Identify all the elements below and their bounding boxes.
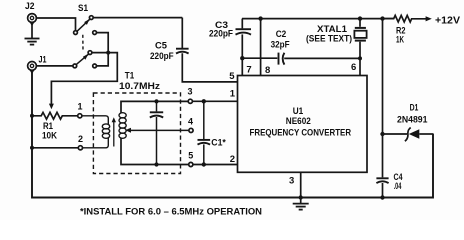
wire S1b pivot to R1 wiper bbox=[51, 53, 117, 106]
junction C1 top bbox=[202, 99, 206, 103]
terminal circle 4 bbox=[189, 128, 193, 132]
right branch vertical (rail to C4) bbox=[382, 19, 384, 178]
junction R1 left on rail bbox=[30, 114, 34, 118]
svg-text:C2: C2 bbox=[276, 29, 287, 39]
svg-text:32pF: 32pF bbox=[271, 39, 290, 49]
connector J1 bbox=[28, 62, 37, 75]
svg-text:1: 1 bbox=[77, 102, 82, 112]
switch S1 gang dashed link bbox=[82, 35, 84, 51]
T1 secondary top lead bbox=[121, 101, 188, 113]
svg-text:J2: J2 bbox=[25, 1, 35, 11]
svg-text:5: 5 bbox=[229, 71, 235, 82]
svg-text:1: 1 bbox=[230, 89, 236, 100]
T1 tuning slug arrow bbox=[112, 117, 116, 146]
switch S1 pole B: left contact bbox=[73, 64, 77, 68]
svg-text:220pF: 220pF bbox=[150, 51, 174, 61]
svg-text:S1: S1 bbox=[78, 3, 88, 13]
switch S1 pole B: arm with arrow bbox=[76, 54, 88, 65]
potentiometer R1 body bbox=[32, 112, 78, 119]
junction C3/pin7/C2 bbox=[240, 56, 244, 60]
switch S1 pole A: right contact bbox=[93, 31, 97, 35]
svg-text:10K: 10K bbox=[42, 131, 57, 141]
wiper arrowhead into R1 bbox=[49, 104, 54, 110]
T1 secondary bottom lead bbox=[121, 138, 189, 165]
IC U1 box bbox=[238, 76, 368, 173]
wire S1a right contact down to S1b right contact bbox=[97, 33, 109, 66]
junction cap top bbox=[154, 99, 158, 103]
svg-text:3: 3 bbox=[187, 86, 192, 96]
wire terminal 5 to U1 pin 2 bbox=[193, 164, 238, 166]
T1 secondary tap arrow and wire to terminal 4 bbox=[125, 128, 189, 133]
wire J2 to S1a left contact bbox=[37, 18, 76, 31]
wire pin 6 bbox=[359, 58, 361, 75]
wire terminal 3 to U1 pin 1 bbox=[192, 100, 237, 102]
junction pin8/top rail bbox=[258, 16, 262, 20]
svg-text:2: 2 bbox=[78, 134, 83, 144]
wire S1a pivot to C5 bbox=[93, 17, 182, 19]
junction C1 bottom bbox=[202, 162, 206, 166]
junction D1 branch bbox=[380, 132, 384, 136]
resistor R2 bbox=[383, 15, 428, 22]
switch S1 pole A: left contact bbox=[74, 31, 78, 35]
switch S1 pole B: pivot contact bbox=[88, 51, 92, 55]
svg-text:4: 4 bbox=[188, 117, 193, 127]
svg-text:7: 7 bbox=[246, 65, 251, 76]
junction rail/terminal2 wire bbox=[30, 146, 34, 150]
wire left rail + bottom ground rail + right return riser bbox=[32, 70, 433, 197]
svg-text:220pF: 220pF bbox=[209, 29, 233, 39]
svg-text:C5: C5 bbox=[155, 41, 167, 51]
capacitor C4 bbox=[376, 178, 388, 197]
ground (under J2) bbox=[25, 23, 40, 45]
junction cap bottom bbox=[154, 162, 158, 166]
switch S1 pole A: arm with arrow bbox=[77, 19, 90, 31]
+12V arrowhead bbox=[426, 16, 432, 21]
svg-text:XTAL1: XTAL1 bbox=[317, 24, 347, 34]
svg-text:R1: R1 bbox=[43, 121, 53, 131]
junction right branch on rail bbox=[380, 16, 384, 20]
svg-text:2: 2 bbox=[230, 154, 235, 165]
junction C4 on bottom rail bbox=[380, 195, 384, 199]
svg-text:2N4891: 2N4891 bbox=[397, 115, 428, 125]
svg-text:1K: 1K bbox=[396, 34, 404, 44]
wire J1 to S1b left contact bbox=[37, 65, 73, 67]
terminal circle 3 bbox=[188, 99, 192, 103]
terminal circle 1 bbox=[78, 114, 82, 118]
svg-text:NE602: NE602 bbox=[286, 116, 311, 126]
switch S1 pole B: right contact bbox=[93, 64, 97, 68]
svg-text:(SEE TEXT): (SEE TEXT) bbox=[306, 34, 352, 44]
capacitor C2 (series) bbox=[242, 53, 360, 65]
capacitor C5 (series from S1 to pin5) bbox=[176, 18, 238, 82]
diode D1 bbox=[383, 128, 434, 142]
junction XTAL bottom / C2 / pin6 bbox=[358, 56, 362, 60]
svg-text:6: 6 bbox=[351, 62, 356, 73]
wire pin 3 to ground rail bbox=[300, 172, 302, 197]
svg-text:C1*: C1* bbox=[211, 138, 226, 149]
svg-text:*INSTALL FOR 6.0 – 6.5MHz OPER: *INSTALL FOR 6.0 – 6.5MHz OPERATION bbox=[80, 207, 262, 217]
svg-text:8: 8 bbox=[265, 65, 270, 76]
wire rail to terminal 2 bbox=[32, 147, 78, 149]
terminal circle 5 bbox=[189, 162, 193, 166]
junction XTAL top on rail bbox=[358, 16, 362, 20]
T1 internal capacitor bbox=[150, 101, 163, 164]
svg-text:.04: .04 bbox=[394, 181, 402, 191]
wire pin 8 to top rail bbox=[260, 19, 262, 76]
capacitor C1 bbox=[198, 101, 211, 164]
svg-text:3: 3 bbox=[289, 175, 294, 186]
svg-text:+12V: +12V bbox=[435, 15, 460, 26]
top supply rail bbox=[242, 18, 394, 20]
ground symbol (pin 3) bbox=[293, 198, 309, 210]
svg-text:5: 5 bbox=[188, 150, 193, 160]
capacitor C3 bbox=[236, 19, 252, 59]
svg-text:10.7MHz: 10.7MHz bbox=[119, 81, 161, 91]
svg-text:T1: T1 bbox=[125, 71, 134, 81]
junction pin3 on rail bbox=[299, 195, 303, 199]
wire pin 7 bbox=[241, 58, 243, 75]
crystal XTAL1 bbox=[354, 19, 366, 59]
connector J2 bbox=[28, 14, 37, 27]
T1 primary winding bbox=[82, 116, 110, 148]
junction S1a-right / S1b-pivot bbox=[106, 51, 110, 55]
svg-text:FREQUENCY CONVERTER: FREQUENCY CONVERTER bbox=[250, 128, 352, 138]
svg-text:D1: D1 bbox=[410, 102, 419, 112]
T1 secondary winding bbox=[119, 113, 126, 139]
transformer T1 dashed box bbox=[93, 93, 180, 174]
terminal circle 2 bbox=[78, 146, 82, 150]
switch S1 pole A: pivot contact bbox=[89, 16, 93, 20]
svg-text:J1: J1 bbox=[39, 55, 47, 65]
